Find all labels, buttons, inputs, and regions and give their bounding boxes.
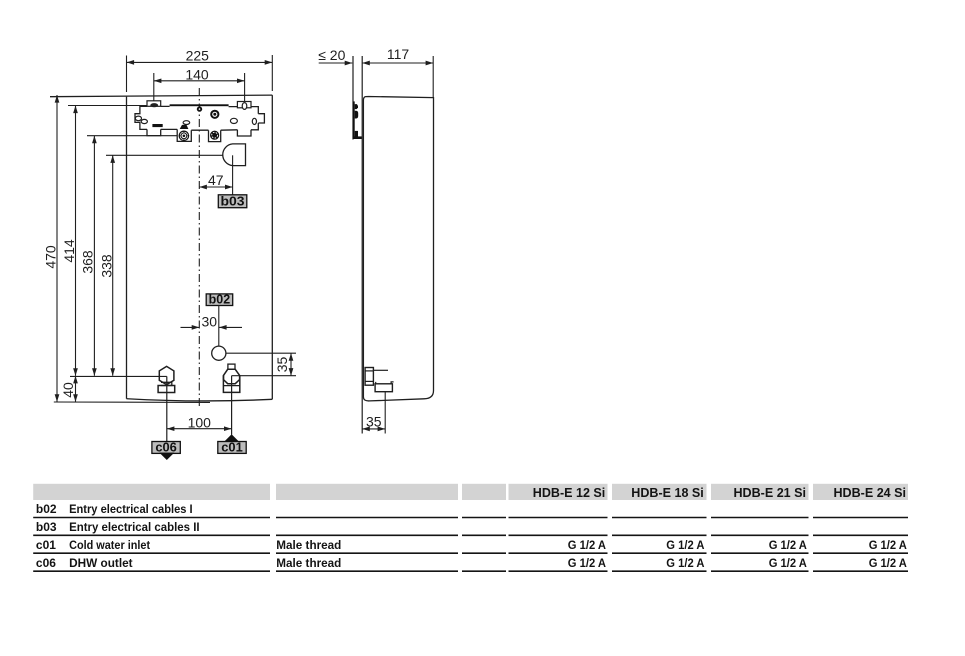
svg-text:G 1/2 A: G 1/2 A bbox=[769, 556, 808, 570]
center pin bbox=[197, 106, 202, 111]
duct b03 bbox=[223, 144, 246, 166]
svg-text:470: 470 bbox=[43, 245, 59, 269]
svg-text:HDB-E 21 Si: HDB-E 21 Si bbox=[734, 486, 807, 500]
leader b03 bbox=[232, 155, 234, 195]
svg-text:40: 40 bbox=[60, 382, 76, 398]
svg-text:35: 35 bbox=[274, 357, 290, 373]
svg-text:b03: b03 bbox=[36, 520, 57, 534]
leader b02 bbox=[218, 306, 220, 347]
bracket top rail bar bbox=[170, 104, 229, 106]
svg-text:35: 35 bbox=[366, 413, 382, 429]
svg-text:c06: c06 bbox=[155, 440, 177, 455]
arrow c06 down bbox=[159, 453, 174, 460]
svg-text:368: 368 bbox=[80, 250, 96, 274]
svg-text:b03: b03 bbox=[221, 193, 245, 208]
small oval mid bbox=[230, 118, 237, 123]
right extension bbox=[432, 56, 434, 97]
fitting c06 bbox=[159, 366, 174, 384]
dim 225 bbox=[127, 55, 273, 92]
dim 338 bbox=[106, 154, 233, 156]
svg-text:HDB-E 24 Si: HDB-E 24 Si bbox=[834, 486, 907, 500]
svg-text:Male thread: Male thread bbox=[276, 538, 341, 552]
front view body outline bbox=[50, 95, 272, 401]
svg-text:G 1/2 A: G 1/2 A bbox=[869, 538, 908, 552]
dim 35 front bbox=[226, 352, 296, 354]
clip slot right bbox=[252, 118, 256, 124]
centerline front view bbox=[198, 88, 200, 409]
svg-text:G 1/2 A: G 1/2 A bbox=[769, 538, 808, 552]
table rules bbox=[33, 518, 908, 572]
label b02 bbox=[206, 294, 233, 306]
label b03 bbox=[218, 195, 247, 208]
dim 117 bbox=[362, 62, 433, 64]
dim 470 bbox=[56, 95, 58, 402]
svg-text:HDB-E 18 Si: HDB-E 18 Si bbox=[631, 486, 704, 500]
dim 414 bbox=[68, 105, 147, 107]
svg-text:30: 30 bbox=[202, 313, 218, 329]
fitting c01 bbox=[228, 364, 235, 369]
black slot bar bbox=[152, 124, 162, 127]
phillips screw bbox=[211, 111, 218, 118]
hydraulic screw right bbox=[210, 131, 219, 140]
svg-text:DHW outlet: DHW outlet bbox=[69, 556, 133, 570]
hydraulic screw left bbox=[179, 131, 188, 140]
svg-text:≤ 20: ≤ 20 bbox=[318, 47, 345, 63]
svg-text:c01: c01 bbox=[36, 538, 56, 552]
svg-text:338: 338 bbox=[98, 254, 114, 278]
bracket screw tab right bbox=[237, 102, 251, 108]
dim 30 bbox=[181, 326, 243, 328]
back line / extension bbox=[361, 56, 363, 434]
svg-text:G 1/2 A: G 1/2 A bbox=[568, 538, 607, 552]
entry b02 circle bbox=[212, 346, 226, 360]
svg-text:225: 225 bbox=[186, 47, 210, 63]
keyhole slots left bbox=[135, 116, 141, 121]
cable clamp bell bbox=[180, 125, 189, 129]
dim le20 bbox=[319, 62, 353, 64]
wall bracket side bbox=[353, 101, 355, 136]
svg-text:117: 117 bbox=[387, 46, 410, 62]
dim 35 side bbox=[384, 392, 386, 434]
dim 47 bbox=[199, 186, 232, 188]
dim 40 bbox=[75, 376, 77, 402]
svg-text:47: 47 bbox=[208, 172, 224, 188]
svg-text:HDB-E 12 Si: HDB-E 12 Si bbox=[533, 486, 606, 500]
dim 368 bbox=[87, 135, 177, 137]
svg-text:414: 414 bbox=[61, 239, 77, 263]
reference line bottom bbox=[54, 401, 210, 403]
bracket screw tab left bbox=[147, 101, 161, 107]
svg-text:Entry electrical cables II: Entry electrical cables II bbox=[69, 520, 200, 534]
dim 140 bbox=[154, 73, 245, 104]
header band bbox=[33, 484, 908, 500]
svg-text:b02: b02 bbox=[36, 502, 57, 516]
side body outline bbox=[363, 97, 433, 401]
drain fitting side bbox=[365, 368, 373, 386]
svg-text:G 1/2 A: G 1/2 A bbox=[568, 556, 607, 570]
svg-text:G 1/2 A: G 1/2 A bbox=[666, 556, 705, 570]
svg-text:100: 100 bbox=[188, 414, 212, 430]
wall line bbox=[352, 56, 354, 140]
svg-text:G 1/2 A: G 1/2 A bbox=[666, 538, 705, 552]
svg-text:G 1/2 A: G 1/2 A bbox=[869, 556, 908, 570]
svg-text:c06: c06 bbox=[36, 556, 56, 570]
mounting bracket outline bbox=[135, 106, 264, 141]
label c01 bbox=[218, 442, 246, 454]
svg-text:140: 140 bbox=[185, 66, 209, 82]
label c06 bbox=[152, 442, 180, 454]
svg-text:c01: c01 bbox=[221, 440, 243, 455]
dim 100 bbox=[167, 428, 232, 430]
svg-text:b02: b02 bbox=[209, 292, 231, 307]
arrow c01 up bbox=[224, 434, 239, 441]
svg-text:Cold water inlet: Cold water inlet bbox=[69, 538, 150, 552]
pipe leaders bbox=[166, 376, 168, 441]
svg-text:Male thread: Male thread bbox=[276, 556, 341, 570]
svg-text:Entry electrical cables I: Entry electrical cables I bbox=[69, 502, 193, 516]
